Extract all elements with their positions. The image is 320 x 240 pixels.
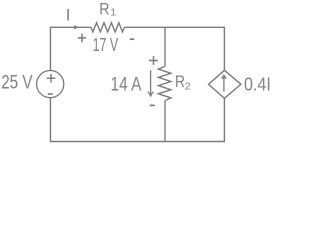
resistor R1 <box>91 23 124 32</box>
plus sign above R2 <box>149 56 158 65</box>
voltage source V1 circle <box>37 71 64 98</box>
wire left bottom <box>50 98 224 142</box>
dependent source diamond <box>209 70 241 98</box>
dependent source arrow <box>222 75 226 91</box>
svg-text:25 V: 25 V <box>1 73 33 94</box>
svg-text:1: 1 <box>110 7 116 19</box>
wire middle bottom <box>164 101 166 142</box>
resistor R2 <box>158 66 171 100</box>
current I arrow on top wire <box>74 26 77 29</box>
svg-text:17 V: 17 V <box>93 35 119 55</box>
plus sign in source <box>47 74 56 83</box>
svg-text:14 A: 14 A <box>111 74 142 95</box>
wire top right <box>124 27 224 70</box>
minus sign below R2 <box>150 104 155 106</box>
14A current arrow <box>148 70 153 96</box>
minus sign right of R1 <box>130 38 135 40</box>
svg-text:I: I <box>66 5 71 24</box>
svg-text:R: R <box>99 0 109 18</box>
svg-text:R: R <box>175 73 185 91</box>
minus sign in source <box>48 93 53 95</box>
plus sign left of R1 <box>78 34 86 42</box>
wire middle top <box>164 27 166 66</box>
svg-text:0.4I: 0.4I <box>244 74 271 95</box>
svg-text:2: 2 <box>185 81 191 93</box>
wire top left horizontal <box>50 27 91 70</box>
